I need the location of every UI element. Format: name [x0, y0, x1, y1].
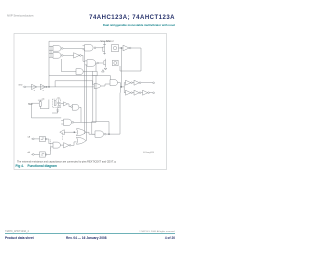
- NAND gate G2: [53, 53, 61, 59]
- external dashed box: [52, 99, 60, 107]
- wire A2 output: [83, 71, 92, 73]
- svg-text:NXP Semiconductors: NXP Semiconductors: [7, 14, 34, 18]
- wire L1 output: [106, 133, 120, 135]
- svg-text:© NXP B.V. 2008. All rights re: © NXP B.V. 2008. All rights reserved.: [139, 230, 175, 233]
- capacitor element in box: [57, 100, 60, 105]
- wire TD to A4: [68, 104, 71, 107]
- wire VCC down to G5: [32, 103, 62, 118]
- input bubble A4: [71, 106, 73, 108]
- bus wire v1: [84, 50, 86, 134]
- junction latch out: [108, 134, 109, 135]
- output inverter Q1a: [126, 80, 131, 85]
- arrow mark: [102, 70, 105, 72]
- svg-text:Functional diagram: Functional diagram: [28, 164, 58, 168]
- wire B3 up: [95, 63, 97, 71]
- ground arrow S2: [104, 68, 107, 70]
- input pin B: [32, 154, 34, 156]
- wire latch up node: [119, 93, 121, 134]
- footer rule: [5, 232, 175, 235]
- transistor S2: [104, 59, 106, 67]
- vertical lead wire: [48, 100, 50, 109]
- wire A2 input drop: [62, 59, 77, 72]
- G5 input stubs: [61, 121, 63, 125]
- svg-text:(1): (1): [42, 98, 45, 100]
- G1 input stubs: [49, 47, 53, 51]
- wire G3 output: [96, 47, 103, 49]
- input pin A: [32, 138, 34, 140]
- figure frame: [14, 34, 167, 170]
- G4 input stubs: [85, 61, 87, 65]
- output pin Q: [153, 82, 155, 84]
- wire OR1 output: [86, 132, 95, 134]
- pin number marks: [34, 90, 44, 92]
- wire T3 row: [66, 131, 77, 133]
- AND gate AD2: [110, 80, 118, 86]
- feedback wire latch: [92, 122, 109, 135]
- wire IN1 out: [47, 139, 53, 144]
- output inverter Q2b: [134, 90, 139, 95]
- NAND gate G3: [85, 45, 94, 51]
- schmitt box IN1: [40, 136, 46, 141]
- transistor box B3: [93, 71, 98, 75]
- wire G5 up node: [95, 76, 97, 123]
- resistor element in box: [54, 101, 56, 106]
- svg-text:74AHC123A; 74AHCT123A: 74AHC123A; 74AHCT123A: [89, 15, 175, 21]
- inverter T3 left-facing: [60, 130, 66, 135]
- latch NAND L1: [95, 131, 103, 137]
- junction node T2 input: [121, 47, 122, 48]
- junction node: [121, 86, 122, 87]
- wire G5 output: [74, 121, 96, 123]
- output bracket wire: [124, 83, 125, 93]
- dashed wire vertical b: [49, 140, 51, 152]
- wire CEXT bottom mark: [52, 108, 59, 114]
- wire trigger long upper: [49, 76, 111, 80]
- wire RD row long: [26, 86, 94, 88]
- inverter T6: [40, 84, 45, 89]
- inverter T2: [123, 45, 129, 51]
- OR gate OR1: [77, 129, 87, 136]
- wire T2 output: [131, 47, 141, 49]
- junction T3: [74, 132, 75, 133]
- svg-text:Dual retriggerable monostable: Dual retriggerable monostable multivibra…: [103, 23, 175, 27]
- wire T1 to G4: [81, 55, 84, 61]
- NAND gate G5: [64, 119, 72, 125]
- wire AD2 output: [118, 83, 125, 93]
- wire G4 output: [99, 62, 104, 64]
- top label drawing code: [101, 39, 115, 43]
- NAND gate G4: [87, 60, 96, 67]
- svg-text:nRD: nRD: [18, 85, 23, 87]
- bus wire v2: [85, 65, 87, 141]
- output inverter Q2a: [126, 90, 131, 95]
- resistor REXT vcc tee: [38, 100, 43, 102]
- wire G1 output: [63, 47, 84, 49]
- G3 input stubs: [83, 46, 85, 50]
- input bracket wire: [50, 46, 52, 58]
- svg-text:Fig 4.: Fig 4.: [16, 164, 24, 168]
- wire box out: [61, 102, 64, 104]
- wire A5 to T4: [60, 144, 63, 146]
- wire T4 out: [71, 142, 77, 145]
- left bus wire: [48, 41, 50, 87]
- AND gate A5: [53, 142, 60, 148]
- top rail wire: [49, 40, 110, 42]
- output inverter Q2c: [143, 90, 148, 95]
- wire Q1 to pin: [132, 82, 152, 84]
- svg-text:Product data sheet: Product data sheet: [5, 236, 35, 240]
- wire B1 output: [119, 47, 124, 49]
- wire VCC row: [32, 102, 40, 104]
- svg-text:4 of 20: 4 of 20: [165, 236, 175, 240]
- buffer TD: [64, 102, 68, 106]
- NAND gate A4: [72, 104, 79, 110]
- OR gate OR2: [77, 137, 87, 144]
- G2 input stubs: [49, 54, 53, 58]
- schmitt box IN2: [40, 152, 46, 157]
- input pin RD: [24, 86, 26, 88]
- pin stub to transistor chain: [103, 41, 106, 44]
- inverter T5: [32, 84, 37, 89]
- NAND gate G1: [53, 46, 61, 52]
- inverter T4: [64, 143, 70, 148]
- inverter T1: [74, 53, 80, 58]
- output pin Qbar: [153, 92, 155, 94]
- output inverter Q1b: [134, 80, 139, 85]
- wire REXT lead: [40, 108, 49, 110]
- dashed wire vertical a: [61, 133, 63, 141]
- wire pin A: [34, 138, 39, 140]
- comparator box B4: [113, 60, 119, 66]
- junction RD: [48, 86, 49, 87]
- wire AD1 to AD2: [101, 84, 110, 86]
- svg-text:74AHC_AHCT123A_4: 74AHC_AHCT123A_4: [5, 230, 29, 233]
- wire OR2 output: [85, 140, 87, 142]
- feedback wire loop: [120, 48, 141, 71]
- wire trigger long lower: [55, 81, 94, 87]
- svg-text:The external resistance and ca: The external resistance and capacitance …: [17, 161, 116, 164]
- wire G2 to T1: [63, 54, 73, 56]
- svg-text:Rev. 04 — 16 January 2008: Rev. 04 — 16 January 2008: [66, 236, 107, 240]
- transistor S1: [103, 45, 106, 55]
- main vertical node wire: [120, 48, 122, 87]
- AND gate A2: [76, 69, 83, 75]
- wire A4 output down: [79, 107, 81, 122]
- wire Q2 to pin: [132, 92, 152, 94]
- comparator box B1: [112, 45, 119, 52]
- svg-text:001aag926: 001aag926: [143, 152, 155, 154]
- bus wire v3: [92, 76, 94, 122]
- OR gate AD1: [94, 84, 101, 89]
- wire IN2 out: [47, 147, 53, 155]
- wire pin B: [34, 153, 39, 155]
- svg-text:(1): (1): [58, 98, 61, 100]
